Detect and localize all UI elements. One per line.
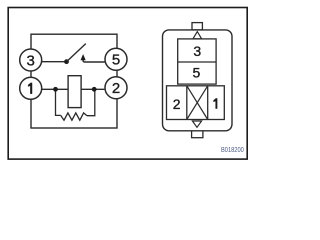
svg-text:5: 5	[112, 52, 120, 69]
relay internal circuit box	[31, 34, 117, 128]
wire: switch arrow to terminal 5	[83, 61, 105, 63]
figure number B018200	[221, 145, 244, 154]
svg-text:5: 5	[193, 64, 201, 80]
svg-text:2: 2	[173, 96, 181, 112]
wire: terminal 3 to switch pivot	[42, 61, 67, 63]
pin block 3/5	[178, 39, 216, 84]
junction dot left (coil/resistor node)	[53, 87, 58, 92]
connector top mounting tab	[192, 23, 202, 30]
terminal 5	[105, 48, 127, 70]
svg-text:3: 3	[193, 43, 201, 59]
switch contact (movable blade)	[64, 44, 86, 65]
junction dot right (coil/resistor node)	[92, 87, 97, 92]
terminal 3	[20, 49, 42, 71]
svg-text:B018200: B018200	[221, 145, 244, 154]
terminal 2	[105, 77, 127, 99]
pin 2 label	[173, 96, 181, 112]
wire: terminal 1 to terminal 2	[42, 88, 105, 90]
relay coil	[68, 76, 81, 108]
pin 3 label	[193, 43, 201, 59]
connector body	[163, 30, 233, 131]
orientation triangle up	[193, 32, 202, 39]
switch actuation arrow	[81, 54, 86, 62]
connector bottom mounting tab	[192, 131, 203, 138]
resistor (zigzag)	[61, 113, 87, 120]
orientation triangle down	[192, 121, 201, 127]
pin 1 label	[214, 98, 218, 108]
wire: resistor parallel loop	[56, 90, 95, 116]
keyway X mark	[187, 86, 208, 120]
pin 5 label	[193, 64, 201, 80]
svg-text:3: 3	[27, 52, 35, 69]
lower pin block (pins 2 and 1)	[167, 86, 225, 120]
terminal 1	[20, 77, 42, 99]
svg-text:2: 2	[112, 80, 120, 97]
